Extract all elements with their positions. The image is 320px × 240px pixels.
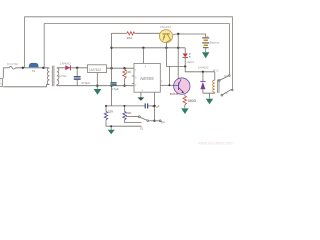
wire U2 pin1 to ground bbox=[140, 92, 142, 97]
wire U2 pin5 down bbox=[153, 92, 155, 121]
resistor R1 2K2 bbox=[127, 32, 135, 35]
node R4 top bbox=[124, 105, 126, 107]
svg-text:F1 0.5A: F1 0.5A bbox=[7, 62, 19, 66]
wire U2 pin3 to Q2 base bbox=[160, 84, 173, 86]
svg-text:NC: NC bbox=[225, 91, 229, 95]
svg-text:www.elecfans.com: www.elecfans.com bbox=[198, 141, 233, 146]
transistor Q1 2SA671 bbox=[159, 30, 172, 43]
ground under R5 bbox=[181, 108, 188, 114]
node L bbox=[184, 65, 186, 67]
relay contact arm A bbox=[218, 75, 230, 82]
timer U2 NE555 bbox=[134, 63, 163, 92]
wire Q1 collector to LED node bbox=[166, 43, 185, 67]
wire main vertical x=111.5 bbox=[111, 33, 113, 106]
wire base line to Q1 with corner bbox=[112, 32, 127, 34]
node F bbox=[110, 47, 112, 49]
test point TP bbox=[159, 120, 161, 122]
resistor R3 22K bbox=[104, 106, 107, 126]
ground under U1 bbox=[94, 89, 102, 95]
transformer T1 core bbox=[52, 66, 54, 87]
node A bbox=[22, 67, 24, 69]
svg-text:S2: S2 bbox=[140, 127, 144, 131]
svg-text:22K: 22K bbox=[126, 111, 131, 115]
switch S2 bbox=[126, 116, 159, 122]
wire R1 to Q1 bbox=[135, 32, 161, 34]
wire plug top lead bbox=[2, 68, 4, 78]
node O bbox=[202, 71, 204, 73]
node U1 gnd on rail bbox=[96, 85, 98, 87]
relay coil RY1 bbox=[213, 72, 219, 93]
LED LED1 bbox=[183, 48, 191, 67]
node H bbox=[142, 47, 144, 49]
svg-text:12Vac: 12Vac bbox=[58, 74, 67, 78]
svg-text:10K: 10K bbox=[126, 70, 132, 74]
wire top rail 2 bbox=[44, 24, 229, 75]
node J bbox=[177, 47, 179, 49]
AC plug P1 bbox=[0, 79, 3, 87]
switch S1 bbox=[29, 63, 38, 67]
node Q bbox=[153, 120, 155, 122]
wire U2 Vcc pin bbox=[142, 48, 144, 64]
svg-text:NE555: NE555 bbox=[140, 76, 154, 81]
wire bottom feed rail bbox=[106, 105, 145, 107]
capacitor C1 470uF bbox=[74, 68, 81, 86]
regulator U1 LM7812 bbox=[88, 65, 107, 73]
svg-text:LM7812: LM7812 bbox=[89, 68, 101, 72]
wire base tie bbox=[168, 66, 170, 85]
svg-text:TP: TP bbox=[161, 121, 165, 125]
fuse F1 bbox=[9, 66, 15, 69]
node P bbox=[153, 105, 155, 107]
node E bbox=[123, 67, 125, 69]
wire fuse to S1 to transformer bbox=[15, 67, 49, 69]
diode D2 1N4002 flyback bbox=[200, 72, 205, 93]
svg-text:S1: S1 bbox=[32, 69, 36, 73]
svg-text:4.7µF: 4.7µF bbox=[111, 87, 119, 91]
wire LED node to relay bbox=[185, 66, 215, 71]
ground under relay bbox=[206, 99, 213, 105]
svg-text:1N4002: 1N4002 bbox=[60, 61, 71, 65]
svg-text:NO: NO bbox=[224, 74, 228, 78]
svg-text:1N4002: 1N4002 bbox=[198, 65, 209, 69]
svg-text:LED1: LED1 bbox=[187, 60, 195, 64]
wire R4 bottom rail bbox=[125, 122, 142, 124]
battery BT1 bbox=[202, 34, 209, 52]
transformer T1 secondary bbox=[57, 68, 59, 85]
resistor R2 10K bbox=[123, 68, 126, 86]
svg-text:~: ~ bbox=[0, 82, 2, 86]
wire U1 ground pin bbox=[96, 73, 98, 89]
svg-text:Battery: Battery bbox=[210, 41, 220, 45]
transformer T1 primary bbox=[47, 68, 49, 85]
svg-text:470µF: 470µF bbox=[81, 81, 90, 85]
relay contact arm B bbox=[221, 89, 233, 96]
capacitor C3 4.7uF bbox=[145, 103, 154, 108]
wire relay bottom rail bbox=[203, 93, 215, 99]
wire plug bottom lead bbox=[3, 85, 49, 87]
transistor Q2 BC548 bbox=[174, 78, 190, 94]
ground bottom left bbox=[108, 130, 115, 134]
node C bbox=[76, 67, 78, 69]
wire R3 bottom rail with ground bbox=[106, 126, 142, 130]
svg-text:4.7µF: 4.7µF bbox=[152, 104, 160, 108]
svg-text:BC548: BC548 bbox=[170, 92, 179, 96]
resistor R5 680 ohm bbox=[183, 94, 186, 108]
wire secondary top to regulator bbox=[57, 67, 88, 69]
capacitor C2 4.7uF bbox=[110, 83, 116, 85]
svg-text:680Ω: 680Ω bbox=[188, 99, 197, 103]
node B bbox=[42, 67, 44, 69]
wire U2 pin stubs left bbox=[132, 76, 134, 84]
node I bbox=[165, 47, 167, 49]
diode D1 1N4002 bbox=[65, 65, 70, 70]
node S bbox=[110, 125, 112, 127]
wire top rail 1 bbox=[25, 17, 233, 90]
svg-text:+: + bbox=[207, 34, 209, 38]
node K bbox=[123, 85, 125, 87]
resistor R4 22K bbox=[123, 106, 126, 123]
node M bbox=[168, 84, 170, 86]
wire Q1 emitter to battery bbox=[173, 34, 206, 37]
svg-text:3: 3 bbox=[161, 80, 163, 83]
wire U1 output to NE555 bbox=[107, 67, 135, 69]
wire ground rail bbox=[57, 85, 134, 86]
node R3 top bbox=[105, 105, 107, 107]
node N bbox=[177, 33, 179, 35]
node G bbox=[110, 85, 112, 87]
svg-text:2K2: 2K2 bbox=[127, 36, 133, 40]
ground under battery bbox=[202, 52, 209, 58]
ground under U2 bbox=[138, 97, 145, 100]
svg-text:2SA671: 2SA671 bbox=[160, 25, 171, 29]
wire fuse feed bbox=[3, 67, 9, 69]
svg-text:RY1: RY1 bbox=[213, 68, 219, 72]
node D bbox=[110, 67, 112, 69]
svg-text:22K: 22K bbox=[108, 110, 113, 114]
wire +12V rail bbox=[112, 47, 186, 49]
wire Q2 collector vertical bbox=[177, 34, 179, 79]
